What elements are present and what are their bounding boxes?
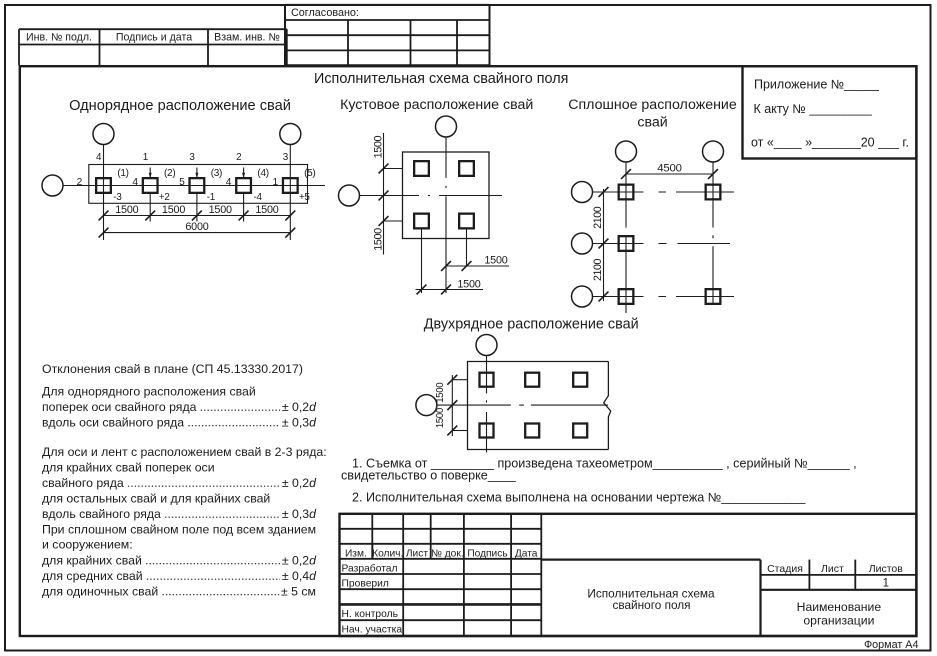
svg-text:2. Исполнительная схема выполн: 2. Исполнительная схема выполнена на осн… (352, 491, 806, 505)
svg-text:свайного поля: свайного поля (612, 598, 690, 612)
svg-text:свайного ряда: свайного ряда (42, 476, 124, 490)
svg-text:4: 4 (96, 152, 102, 163)
svg-text:Кустовое расположение свай: Кустовое расположение свай (340, 97, 533, 113)
svg-text:1: 1 (143, 152, 149, 163)
svg-text:3: 3 (283, 152, 289, 163)
svg-text:Отклонения свай в плане (СП 45: Отклонения свай в плане (СП 45.13330.201… (42, 362, 303, 376)
svg-text:± 0,3d: ± 0,3d (282, 416, 317, 430)
svg-text:6000: 6000 (185, 221, 208, 233)
svg-text:свай: свай (637, 114, 667, 130)
svg-text:Нач. участка: Нач. участка (342, 625, 403, 636)
svg-text:Н. контроль: Н. контроль (342, 609, 399, 620)
svg-text:Лист: Лист (821, 563, 844, 575)
svg-text:Лист: Лист (406, 548, 428, 559)
svg-text:1500: 1500 (484, 255, 507, 267)
svg-text:(1): (1) (117, 168, 128, 179)
svg-text:Приложение №_____: Приложение №_____ (754, 78, 880, 92)
svg-text:± 0,3d: ± 0,3d (282, 507, 317, 521)
svg-text:и сооружением:: и сооружением: (42, 538, 133, 552)
svg-text:свидетельство о поверке____: свидетельство о поверке____ (341, 469, 517, 483)
svg-text:вдоль оси свайного ряда: вдоль оси свайного ряда (42, 416, 184, 430)
svg-text:3: 3 (189, 152, 195, 163)
svg-text:± 5 см: ± 5 см (281, 585, 316, 599)
svg-text:1500: 1500 (435, 407, 446, 428)
svg-text:К акту № _________: К акту № _________ (754, 102, 873, 116)
svg-text:1500: 1500 (457, 278, 480, 290)
svg-text:1500: 1500 (373, 135, 385, 158)
svg-text:от «____ »_______20 ___ г.: от «____ »_______20 ___ г. (751, 136, 909, 150)
svg-text:2100: 2100 (592, 259, 604, 281)
svg-text:± 0,2d: ± 0,2d (282, 476, 317, 490)
svg-text:организации: организации (803, 614, 874, 628)
svg-text:1: 1 (883, 578, 889, 590)
svg-text:При сплошном свайном поле под: При сплошном свайном поле под всем здани… (42, 523, 316, 537)
svg-text:Проверил: Проверил (342, 578, 389, 589)
svg-text:для одиночных свай: для одиночных свай (42, 585, 158, 599)
svg-text:Дата: Дата (515, 548, 538, 559)
svg-text:Согласовано:: Согласовано: (291, 7, 359, 19)
svg-text:Взам. инв. №: Взам. инв. № (214, 32, 280, 44)
svg-text:4500: 4500 (657, 163, 682, 175)
svg-text:-4: -4 (254, 192, 263, 203)
svg-text:4: 4 (132, 177, 138, 188)
svg-text:Наименование: Наименование (797, 600, 882, 614)
svg-text:для крайних свай: для крайних свай (42, 554, 142, 568)
svg-text:± 0,2d: ± 0,2d (282, 554, 317, 568)
svg-text:+2: +2 (159, 192, 170, 203)
svg-text:для остальных свай и для крайн: для остальных свай и для крайних свай (42, 492, 270, 506)
svg-text:Формат А4: Формат А4 (864, 639, 919, 651)
svg-text:1500: 1500 (162, 204, 185, 216)
svg-text:Сплошное расположение: Сплошное расположение (568, 97, 737, 113)
svg-text:Подпись: Подпись (467, 548, 507, 559)
svg-text:для крайних свай поперек оси: для крайних свай поперек оси (42, 461, 215, 475)
svg-text:Инв. № подл.: Инв. № подл. (26, 32, 92, 44)
svg-text:1500: 1500 (435, 382, 446, 403)
svg-text:(2): (2) (164, 168, 175, 179)
svg-text:Однорядное расположение свай: Однорядное расположение свай (69, 98, 291, 114)
svg-text:Двухрядное расположение свай: Двухрядное расположение свай (424, 316, 639, 332)
svg-text:± 0,4d: ± 0,4d (282, 569, 317, 583)
svg-text:-3: -3 (113, 192, 122, 203)
svg-text:1500: 1500 (209, 204, 232, 216)
svg-text:1500: 1500 (115, 204, 138, 216)
svg-text:1500: 1500 (373, 228, 385, 251)
svg-text:Колич.: Колич. (372, 548, 403, 559)
svg-text:-1: -1 (207, 192, 216, 203)
svg-text:Разработал: Разработал (342, 562, 398, 574)
svg-text:(3): (3) (211, 168, 222, 179)
svg-text:Изм.: Изм. (345, 548, 367, 559)
svg-text:1500: 1500 (255, 204, 278, 216)
svg-text:+5: +5 (299, 192, 310, 203)
svg-text:2100: 2100 (592, 206, 604, 228)
svg-text:Для оси и лент с расположением: Для оси и лент с расположением свай в 2-… (42, 445, 327, 459)
svg-text:Листов: Листов (869, 563, 904, 575)
svg-text:Исполнительная схема свайного: Исполнительная схема свайного поля (314, 71, 568, 87)
svg-text:Подпись и дата: Подпись и дата (116, 32, 192, 44)
svg-text:5: 5 (179, 177, 185, 188)
svg-text:2: 2 (77, 177, 83, 188)
svg-text:(4): (4) (257, 168, 268, 179)
svg-text:Стадия: Стадия (767, 563, 803, 575)
svg-text:± 0,2d: ± 0,2d (282, 400, 317, 414)
svg-text:(5): (5) (304, 168, 315, 179)
svg-text:4: 4 (226, 177, 232, 188)
svg-text:2: 2 (236, 152, 242, 163)
svg-text:Для однорядного расположения с: Для однорядного расположения свай (42, 385, 256, 399)
svg-text:№ док.: № док. (431, 548, 464, 559)
svg-text:вдоль свайного ряда: вдоль свайного ряда (42, 507, 161, 521)
svg-text:для средних свай: для средних свай (42, 569, 143, 583)
svg-text:поперек оси свайного ряда: поперек оси свайного ряда (42, 400, 197, 414)
svg-text:1: 1 (272, 177, 278, 188)
